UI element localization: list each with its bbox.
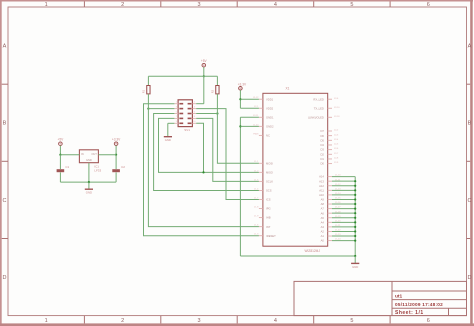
wire (332, 198, 355, 200)
svg-text:VDD2: VDD2 (266, 106, 274, 110)
wire (332, 226, 355, 228)
wire (332, 189, 355, 191)
ground GND1 (85, 182, 93, 195)
frame row letters (3, 44, 472, 281)
wire net SCS (154, 114, 259, 191)
svg-text:A: A (3, 44, 7, 50)
svg-text:A1: A1 (321, 234, 325, 238)
svg-text:GND2: GND2 (266, 124, 274, 128)
svg-text:J2-10: J2-10 (334, 107, 340, 109)
svg-text:ut1: ut1 (395, 294, 403, 300)
svg-text:5: 5 (350, 2, 353, 8)
wire (59, 146, 61, 155)
svg-text:/RESET: /RESET (266, 234, 276, 238)
svg-text:VDD1: VDD1 (266, 97, 274, 101)
svg-text:A11: A11 (319, 188, 324, 192)
node A bus junction (354, 198, 356, 200)
module X1 left pin numbers (253, 97, 259, 236)
svg-text:Sheet: 1/1: Sheet: 1/1 (395, 310, 424, 316)
module X1 left pin names (266, 97, 276, 238)
connector SV1 body (178, 100, 192, 127)
node A bus junction (354, 217, 356, 219)
svg-text:3: 3 (198, 318, 201, 324)
connector SV1 pin numbers (176, 102, 197, 124)
wire gnd rail bottom (240, 255, 355, 257)
svg-text:A9: A9 (321, 198, 325, 202)
wire (239, 90, 241, 108)
svg-text:A13: A13 (319, 179, 324, 183)
node A bus junction (354, 207, 356, 209)
svg-text:C: C (468, 198, 472, 204)
svg-text:IN: IN (81, 152, 84, 156)
svg-text:WIZ812MJ: WIZ812MJ (305, 249, 321, 253)
svg-text:A2: A2 (321, 230, 325, 234)
wire (216, 76, 218, 85)
node A bus junction (354, 203, 356, 205)
wire (332, 221, 355, 223)
supply +5V P1 (58, 138, 65, 146)
svg-text:6: 6 (427, 318, 430, 324)
module X1 body (263, 93, 328, 246)
module X1 left pin stubs (259, 99, 263, 236)
node +5V rail (203, 75, 205, 77)
node A bus junction (354, 221, 356, 223)
svg-text:A0: A0 (321, 239, 325, 243)
wire (147, 76, 149, 85)
svg-text:SCS: SCS (266, 189, 272, 193)
svg-text:IPG: IPG (266, 207, 271, 211)
node A bus junction (354, 235, 356, 237)
svg-text:R2: R2 (211, 89, 215, 93)
svg-text:MISO: MISO (266, 170, 273, 174)
node R1 pin3 (147, 108, 149, 110)
capacitor C2 (112, 155, 120, 182)
capacitor C1 (57, 155, 65, 182)
wire (240, 116, 259, 118)
wire (203, 76, 205, 103)
wire (332, 212, 355, 214)
svg-text:SCLK: SCLK (266, 180, 273, 184)
svg-text:GND: GND (86, 158, 92, 162)
wire net INT (148, 94, 259, 227)
wire (332, 235, 355, 237)
svg-text:2: 2 (121, 2, 124, 8)
wire (240, 98, 259, 100)
svg-text:GND1: GND1 (266, 115, 274, 119)
regulator IC1 body (79, 150, 98, 163)
svg-text:A12: A12 (319, 184, 324, 188)
module X1 right pin names (308, 97, 324, 242)
svg-text:P$28: P$28 (253, 133, 259, 135)
node MISO junction (202, 171, 204, 173)
node A bus junction (354, 185, 356, 187)
svg-text:A5: A5 (321, 216, 325, 220)
wire net SCLK (196, 118, 259, 181)
svg-text:D1: D1 (320, 157, 324, 161)
resistor R1 (142, 86, 150, 94)
connector SV1 pin stubs (174, 104, 196, 124)
svg-text:C1: C1 (65, 165, 69, 169)
svg-text:+5V: +5V (58, 138, 65, 142)
svg-text:+3.3V: +3.3V (238, 82, 247, 86)
svg-text:A10: A10 (319, 193, 324, 197)
wire (332, 185, 355, 187)
svg-text:A6: A6 (321, 211, 325, 215)
wire (332, 217, 355, 219)
svg-text:D7: D7 (320, 129, 324, 133)
svg-text:05/11/2009 17:48:02: 05/11/2009 17:48:02 (395, 302, 443, 307)
wire (115, 146, 117, 155)
svg-text:A7: A7 (321, 207, 325, 211)
node A bus junction (354, 194, 356, 196)
svg-text:D3: D3 (320, 148, 324, 152)
supply +3.3V P2 (112, 138, 121, 146)
wire net MISO (159, 118, 259, 172)
wire (332, 180, 355, 182)
node VDD1 (239, 98, 241, 100)
node R2 pin6 (216, 112, 218, 114)
svg-text:D6: D6 (320, 134, 324, 138)
wire (240, 107, 259, 109)
svg-text:IHB: IHB (266, 216, 271, 220)
wire (196, 103, 204, 105)
ground GND3 (351, 256, 359, 269)
svg-text:ICS: ICS (266, 198, 271, 202)
svg-text:OUT: OUT (91, 152, 97, 156)
wire net MISO branch (196, 123, 203, 172)
svg-text:D2: D2 (320, 152, 324, 156)
svg-text:1: 1 (45, 318, 48, 324)
svg-text:LF33: LF33 (94, 168, 101, 172)
svg-text:RX_LED: RX_LED (313, 97, 324, 101)
wire net RESET (144, 104, 259, 236)
wire net MOSI (217, 94, 259, 163)
svg-text:A3: A3 (321, 225, 325, 229)
wire (88, 163, 90, 182)
wire (332, 230, 355, 232)
node +5V-C1 (59, 154, 61, 156)
node A bus junction (354, 226, 356, 228)
svg-text:6: 6 (427, 2, 430, 8)
svg-text:5: 5 (350, 318, 353, 324)
wire (332, 176, 355, 178)
svg-text:+5V: +5V (201, 59, 208, 63)
svg-text:A14: A14 (319, 175, 324, 179)
module X1 right pin numbers (334, 98, 341, 241)
ground GND2 (164, 123, 175, 142)
svg-text:INT: INT (266, 225, 271, 229)
svg-text:GND: GND (165, 138, 171, 142)
svg-text:R1: R1 (142, 89, 146, 93)
wire (196, 113, 217, 115)
svg-text:A8: A8 (321, 202, 325, 206)
resistor R2 (211, 86, 219, 94)
wire (203, 67, 205, 76)
wire (240, 125, 259, 127)
svg-text:2: 2 (121, 318, 124, 324)
svg-text:D: D (3, 275, 7, 281)
svg-text:3: 3 (198, 2, 201, 8)
svg-text:C2: C2 (121, 165, 125, 169)
svg-text:GND: GND (352, 265, 358, 269)
wire gnd rail (60, 181, 116, 183)
node gnd rail (354, 255, 356, 257)
node A bus junction (354, 212, 356, 214)
wire gnd drop (239, 117, 241, 256)
node reg-gnd (88, 181, 90, 183)
title block outline (294, 281, 467, 315)
svg-text:(LINK)/OLED: (LINK)/OLED (308, 115, 324, 119)
module X1 right pin stubs (328, 99, 332, 240)
wire (60, 154, 79, 156)
wire (98, 154, 116, 156)
svg-text:A4: A4 (321, 220, 325, 224)
wire (332, 208, 355, 210)
wire (332, 203, 355, 205)
svg-text:GND: GND (86, 191, 92, 195)
svg-text:TX_LED: TX_LED (314, 106, 324, 110)
node A bus junction (354, 230, 356, 232)
supply +3.3V P4 (238, 82, 247, 90)
svg-text:4: 4 (274, 318, 277, 324)
node OUT-C2 (115, 154, 117, 156)
svg-text:D0: D0 (320, 162, 324, 166)
svg-text:D5: D5 (320, 138, 324, 142)
wire (332, 194, 355, 196)
svg-text:SV1: SV1 (184, 128, 190, 132)
svg-text:X1: X1 (286, 86, 290, 90)
supply +5V P3 (201, 59, 208, 67)
svg-text:NC: NC (266, 134, 270, 138)
svg-text:A: A (468, 44, 472, 50)
node A bus junction (354, 189, 356, 191)
svg-text:C: C (3, 198, 7, 204)
svg-text:4: 4 (274, 2, 277, 8)
node A bus junction (354, 180, 356, 182)
wire +5V rail (148, 75, 217, 77)
svg-text:1: 1 (45, 2, 48, 8)
wire A bus (354, 177, 356, 256)
svg-text:D4: D4 (320, 143, 324, 147)
svg-text:J2-18: J2-18 (334, 116, 340, 118)
node GND2 (239, 125, 241, 127)
svg-text:B: B (468, 121, 472, 127)
svg-text:B: B (3, 121, 7, 127)
wire net ICS (196, 109, 259, 200)
wire (332, 240, 355, 242)
svg-text:MOSI: MOSI (266, 161, 273, 165)
svg-text:+3.3V: +3.3V (112, 138, 121, 142)
svg-text:D: D (468, 275, 472, 281)
wire (148, 108, 174, 110)
node A bus junction (354, 239, 356, 241)
